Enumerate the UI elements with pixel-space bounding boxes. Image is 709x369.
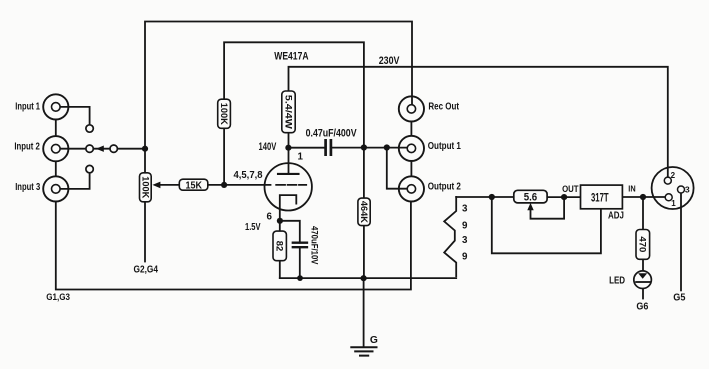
tube V1 WE417A envelope: [265, 163, 312, 210]
svg-text:470: 470: [638, 236, 648, 252]
wire 5.6 to 317T OUT: [547, 196, 580, 198]
wire LED to G6: [642, 288, 644, 298]
wire input jack shield links: [55, 120, 57, 176]
wire grid node to tube grid: [224, 184, 270, 186]
wire 317T IN to XLR pin 1: [622, 196, 665, 198]
svg-text:3: 3: [462, 204, 468, 215]
svg-text:IN: IN: [628, 185, 636, 194]
svg-text:140V: 140V: [259, 141, 277, 153]
resistor R4 464K box: [358, 198, 370, 226]
svg-text:0.47uF/400V: 0.47uF/400V: [306, 128, 358, 140]
svg-text:G1,G3: G1,G3: [46, 292, 70, 303]
svg-text:LED: LED: [609, 276, 625, 287]
svg-text:ADJ: ADJ: [608, 211, 624, 222]
wire 15K to grid node: [208, 184, 224, 186]
svg-text:G5: G5: [673, 292, 685, 303]
svg-text:WE417A: WE417A: [274, 51, 308, 63]
junction node 317T IN: [640, 194, 646, 200]
svg-text:464K: 464K: [359, 201, 369, 223]
XLR pin 1 circle: [665, 194, 672, 201]
svg-text:G: G: [370, 335, 378, 346]
tube V1 grid dashes: [276, 184, 306, 186]
XLR pin 3 circle: [678, 186, 685, 193]
wire 470 to LED: [642, 259, 644, 271]
wire 464K bottom to ground line: [363, 226, 365, 279]
jack J6 center pin: [407, 185, 415, 193]
wire Input 3 pin to switch contact 3: [56, 173, 90, 189]
potentiometer VR1 100K box: [140, 173, 152, 202]
junction node 470uF at ground line: [297, 275, 303, 281]
svg-text:15K: 15K: [186, 180, 203, 191]
svg-text:Input 2: Input 2: [14, 142, 40, 153]
jack J5 Output 1 outer shield ring: [399, 136, 424, 161]
svg-text:1: 1: [298, 151, 304, 162]
svg-text:1: 1: [671, 199, 676, 208]
svg-text:9: 9: [462, 221, 468, 232]
jack J1 Input 1 outer shield ring: [43, 94, 68, 119]
wire pot bottom lead to G2,G4: [144, 202, 146, 262]
jack J6 Output 2 outer shield ring: [399, 176, 424, 201]
svg-text:9: 9: [462, 251, 468, 262]
svg-text:OUT: OUT: [562, 184, 579, 194]
wire cathode node to 470uF cap: [280, 221, 300, 243]
wire ADJ pin path: [492, 197, 601, 253]
jack J3 center pin: [52, 185, 61, 194]
svg-text:Output 2: Output 2: [428, 181, 461, 192]
junction node branch to Output 2: [384, 144, 390, 150]
wire 5.6 wiper path from OUT node: [531, 197, 565, 219]
junction node cathode pin 6: [277, 218, 283, 224]
wire heater top to 5.6 resistor: [456, 196, 514, 198]
wire pot wiper arrow line to 15K: [161, 184, 180, 186]
svg-text:82: 82: [275, 241, 285, 252]
svg-text:5.4/4W: 5.4/4W: [283, 95, 293, 129]
jack J4 Rec Out outer shield ring: [399, 96, 424, 121]
LED D1 diode triangle and bar: [638, 273, 647, 278]
wire feedback rail 100K top to output node: [224, 42, 364, 147]
regulator U1 317T box: [581, 185, 623, 209]
jack J1 center pin: [52, 103, 61, 112]
jack J5 center pin: [407, 144, 415, 152]
switch contact circle 2: [86, 145, 93, 152]
XLR pin 2 circle: [664, 177, 671, 184]
capacitor C2 470uF/10V plates: [293, 243, 307, 248]
svg-text:1.5V: 1.5V: [245, 222, 261, 233]
tube V1 plate bar: [278, 173, 299, 175]
svg-text:Rec Out: Rec Out: [428, 101, 459, 112]
jack J2 Input 2 outer shield ring: [43, 136, 68, 161]
wire Input 1 pin to switch contact 1: [56, 107, 90, 125]
wire cathode ground line to heater bottom: [280, 277, 456, 279]
ground symbol G: [351, 347, 376, 355]
svg-text:G2,G4: G2,G4: [134, 264, 159, 275]
wire output node to 464K top: [363, 148, 365, 199]
pot wiper arrowhead: [152, 182, 160, 189]
resistor R6 5.6 box: [514, 190, 547, 203]
wire branch to Output 2 pin: [387, 148, 407, 189]
resistor R2 5.4/4W plate box: [282, 91, 295, 133]
junction node grid (4,5,7,8): [221, 182, 227, 188]
wire output line cap to Output 1 pin: [332, 147, 407, 149]
svg-text:230V: 230V: [379, 55, 400, 67]
svg-text:4,5,7,8: 4,5,7,8: [234, 170, 263, 181]
junction node at selector / pot / top rail: [142, 146, 148, 152]
svg-text:470uF/10V: 470uF/10V: [310, 226, 320, 265]
svg-text:3: 3: [685, 185, 690, 195]
svg-text:Output 1: Output 1: [428, 141, 461, 152]
jack J4 center pin: [407, 105, 415, 113]
wire output jack shield links: [410, 122, 412, 176]
switch wiper circle: [110, 145, 117, 152]
wire 5.4/4W bottom through anode node to plate: [288, 133, 290, 174]
wire ground bus G1,G3 from Input 3 shield to Output 2 shield: [56, 202, 411, 290]
resistor R7 470 box: [636, 230, 650, 260]
svg-text:5.6: 5.6: [524, 192, 538, 204]
5.6 wiper arrowhead: [527, 203, 533, 210]
svg-text:G6: G6: [636, 301, 648, 312]
wire 470uF bottom lead: [299, 247, 301, 278]
switch contact circle 3: [86, 165, 93, 172]
cathode element and pin 6 lead of V1: [280, 195, 297, 231]
jack J3 Input 3 outer shield ring: [43, 176, 68, 201]
wire ground drop to ground symbol: [363, 278, 365, 347]
svg-text:Input 1: Input 1: [15, 101, 40, 112]
jack J2 center pin: [52, 144, 61, 153]
junction node heater top: [489, 194, 495, 200]
LED D1 circle: [634, 271, 652, 289]
wire anode node to coupling cap: [288, 147, 324, 149]
svg-text:2: 2: [671, 171, 676, 180]
svg-text:317T: 317T: [591, 190, 609, 204]
wire 82 bottom lead: [279, 261, 281, 278]
connector P1 XLR power plug body: [652, 167, 694, 209]
selector wiper arrowhead: [96, 146, 104, 152]
wire top rail from selector node to Rec Out pin: [145, 22, 412, 173]
junction node 317T OUT: [561, 194, 567, 200]
wire IN node to 470 resistor: [642, 197, 644, 230]
resistor R1 100K feedback box: [218, 99, 231, 128]
junction node anode 140V: [285, 145, 291, 151]
svg-text:100K: 100K: [219, 103, 229, 125]
wire 230V rail from 5.4/4W top to XLR pin 2: [289, 67, 668, 177]
svg-text:100K: 100K: [140, 176, 150, 198]
junction node output after cap: [361, 144, 367, 150]
wire Input 2 pin through selector wiper to node: [56, 148, 145, 150]
resistor R5 82 cathode box: [273, 231, 286, 261]
wire XLR pin 3 to G5: [680, 193, 682, 291]
svg-text:6: 6: [267, 212, 273, 223]
capacitor C1 0.47uF/400V plates: [326, 140, 331, 154]
switch contact circle 1: [86, 125, 93, 132]
junction node ground symbol tap: [361, 275, 367, 281]
heater filament zigzag pins 3,9,3,9: [444, 197, 456, 276]
svg-text:Input 3: Input 3: [15, 182, 40, 193]
svg-text:3: 3: [462, 235, 468, 246]
resistor R3 15K box: [179, 179, 208, 190]
wire 100K bottom lead to grid node: [223, 128, 225, 185]
